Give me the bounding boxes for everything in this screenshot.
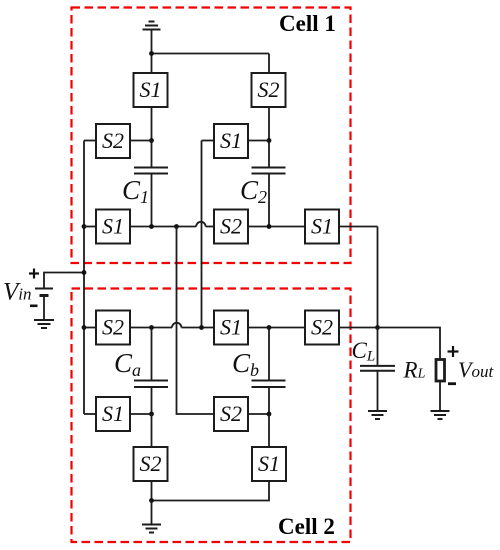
wire bottom ground stem bbox=[151, 501, 153, 525]
svg-text:Cell 2: Cell 2 bbox=[278, 514, 335, 539]
wire B vertical (202) bbox=[201, 141, 203, 328]
label plus (Vout) bbox=[448, 346, 459, 357]
node junction (151,140) bbox=[149, 138, 154, 143]
node junction (151,500) bbox=[149, 498, 154, 503]
wire row5 seg1 bbox=[130, 413, 152, 415]
ground (RL) bbox=[431, 411, 450, 419]
wire row3 left stub bbox=[84, 226, 96, 228]
ground (bottom) bbox=[142, 525, 161, 533]
wire Ca bottom bbox=[151, 387, 153, 414]
svg-text:Cell 1: Cell 1 bbox=[279, 11, 336, 36]
Cell 2 boundary bbox=[72, 289, 351, 543]
wire S2 row6 top bbox=[151, 414, 153, 447]
ground (CL) bbox=[368, 411, 387, 419]
wire A vertical (176) bbox=[177, 227, 215, 415]
svg-text:S2: S2 bbox=[220, 401, 242, 426]
switch S2 (cell2 row4 left) bbox=[96, 311, 130, 345]
wire Ca top bbox=[151, 328, 153, 381]
switch S1 (cell1 row3 right) bbox=[305, 210, 339, 244]
wire S1 row1 to node bbox=[151, 107, 153, 167]
node junction (84,327) bbox=[82, 325, 87, 330]
svg-text:S1: S1 bbox=[220, 128, 242, 153]
node junction (151,414) bbox=[149, 412, 154, 417]
svg-text:S1: S1 bbox=[102, 214, 124, 239]
label minus (Vin) bbox=[30, 304, 38, 307]
wire row4 to CL node bbox=[339, 327, 378, 329]
node junction (151,327) bbox=[149, 325, 154, 330]
svg-text:S2: S2 bbox=[102, 128, 124, 153]
wire S1 row2 left bbox=[202, 140, 215, 142]
svg-text:S1: S1 bbox=[140, 77, 162, 102]
wire output node bbox=[378, 328, 441, 360]
wire S2 row2 left bbox=[84, 140, 96, 142]
svg-text:S1: S1 bbox=[258, 451, 280, 476]
battery Vin wire bbox=[44, 273, 84, 288]
capacitor C2 bbox=[252, 168, 286, 174]
switch S2 (cell1 row3 mid) bbox=[214, 210, 248, 244]
switch S2 (cell2 row5 mid) bbox=[214, 397, 248, 431]
svg-text:S1: S1 bbox=[220, 315, 242, 340]
Cell 1 boundary bbox=[72, 8, 351, 264]
wire hop row4 over wire A bbox=[172, 323, 181, 328]
svg-text:S1: S1 bbox=[311, 214, 333, 239]
wire S1 row6 top bbox=[268, 414, 270, 447]
wire row3 seg2 bbox=[206, 226, 214, 228]
battery Vin stem bbox=[43, 296, 45, 320]
wire hop row3 over wire B bbox=[196, 222, 205, 227]
wire row4 seg3 bbox=[248, 327, 305, 329]
node junction (84,226) bbox=[82, 224, 87, 229]
node junction (269,414) bbox=[267, 412, 272, 417]
wire CL bottom bbox=[377, 371, 379, 411]
wire right vertical (377) bbox=[377, 227, 379, 328]
switch S1 (cell2 row5 left) bbox=[96, 397, 130, 431]
node junction (84,272) bbox=[82, 270, 87, 275]
svg-text:S2: S2 bbox=[220, 214, 242, 239]
wire left vertical (84) bbox=[83, 141, 85, 415]
switch S1 (cell1 row2 mid) bbox=[214, 124, 248, 158]
wire C2 bottom bbox=[268, 174, 270, 227]
wire row3 seg1 bbox=[130, 226, 196, 228]
wire row4 seg2 bbox=[181, 327, 214, 329]
capacitor Cb bbox=[252, 381, 286, 388]
switch S2 (cell1 row1) bbox=[252, 73, 286, 107]
wire row5 seg2 bbox=[248, 413, 269, 415]
switch S1 (cell1 row1) bbox=[134, 73, 168, 107]
wire C1 bottom bbox=[151, 174, 153, 227]
battery Vin plates bbox=[35, 289, 53, 296]
switch S2 (cell1 row2 left) bbox=[96, 124, 130, 158]
svg-text:S1: S1 bbox=[102, 401, 124, 426]
wire top node horizontal bbox=[152, 53, 270, 55]
wire top ground stem bbox=[151, 31, 153, 74]
wire S1 row2 right bbox=[248, 140, 269, 142]
switch S2 (cell2 row6) bbox=[134, 447, 168, 481]
wire S2 row2 right bbox=[130, 140, 152, 142]
node junction (269,327) bbox=[267, 325, 272, 330]
node junction (202,327) bbox=[199, 325, 204, 330]
switch S1 (cell2 row6) bbox=[252, 447, 286, 481]
wire bottom node bbox=[152, 481, 270, 501]
ground (top, inverted) bbox=[143, 22, 161, 30]
wire row4 seg1 bbox=[130, 327, 172, 329]
ground (Vin) bbox=[34, 320, 54, 328]
capacitor Ca bbox=[134, 381, 168, 388]
svg-text:S2: S2 bbox=[102, 315, 124, 340]
switch S2 (cell2 row4 right) bbox=[305, 311, 339, 345]
node junction (176,226) bbox=[174, 224, 179, 229]
wire CL top bbox=[377, 328, 379, 366]
wire row3 seg3 bbox=[248, 226, 305, 228]
svg-text:S2: S2 bbox=[258, 77, 280, 102]
node junction (269,140) bbox=[267, 138, 272, 143]
wire Cb bottom bbox=[268, 387, 270, 414]
wire RL bottom bbox=[439, 381, 441, 411]
wire row3 to CL column bbox=[339, 226, 378, 228]
resistor RL bbox=[436, 360, 445, 382]
capacitor C1 bbox=[134, 168, 168, 174]
wire row4 left stub bbox=[84, 327, 96, 329]
label minus (Vout) bbox=[448, 382, 456, 385]
node top junction bbox=[149, 51, 154, 56]
capacitor CL bbox=[360, 366, 395, 371]
node junction (269,226) bbox=[267, 224, 272, 229]
wire S2 row1 to node bbox=[268, 107, 270, 167]
wire row5 left stub bbox=[84, 413, 96, 415]
wire Cb top bbox=[268, 328, 270, 381]
node junction (377,327) bbox=[375, 325, 380, 330]
svg-text:S2: S2 bbox=[140, 451, 162, 476]
wire top to S2 row1 bbox=[268, 54, 270, 74]
svg-text:S2: S2 bbox=[311, 315, 333, 340]
node junction (151,226) bbox=[149, 224, 154, 229]
switch S1 (cell2 row4 mid) bbox=[214, 311, 248, 345]
switch S1 (cell1 row3 left) bbox=[96, 210, 130, 244]
label plus (Vin) bbox=[29, 269, 39, 279]
